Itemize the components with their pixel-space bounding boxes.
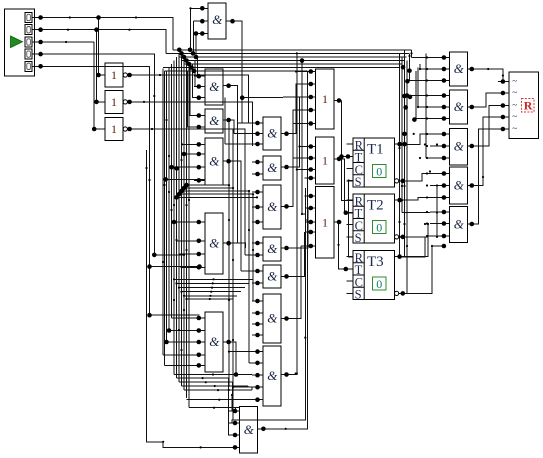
bend — [410, 52, 412, 54]
bend — [178, 329, 180, 331]
top AND gate body — [208, 3, 226, 39]
bend — [145, 167, 147, 169]
junction O2 input — [309, 156, 314, 161]
junction R4 output — [470, 183, 475, 188]
junction R2 input — [442, 93, 447, 98]
T3 Qbar output stub — [399, 292, 407, 294]
branch pin1 to NOT1 — [99, 18, 106, 76]
junction B1 input — [255, 121, 260, 126]
bend — [296, 168, 298, 170]
feed A3 in2 — [184, 153, 194, 155]
T3 Q output stub — [395, 256, 405, 258]
svg-text:1: 1 — [111, 68, 117, 82]
junction B7 input — [255, 385, 260, 390]
bottom long wire to A6 — [163, 442, 234, 448]
bend — [162, 261, 164, 263]
AND A3 input stub — [194, 179, 205, 181]
junction input pin 1 — [38, 15, 43, 20]
bend — [248, 229, 250, 231]
feed vert — [417, 68, 419, 108]
AND B3 input stub — [252, 191, 263, 193]
output pin 2 stub — [498, 92, 509, 94]
junction O1 input — [309, 121, 314, 126]
mid bundle row 4 — [182, 291, 242, 293]
branch pin2 to NOT2 — [97, 30, 106, 102]
junction NOT1 output — [127, 73, 132, 78]
AND B3 input stub — [252, 221, 263, 223]
AND R2 output stub — [468, 106, 477, 108]
top AND input stub — [196, 20, 208, 22]
AND A5 input stub — [194, 317, 205, 319]
junction A4 input — [197, 265, 202, 270]
junction O2 input — [309, 144, 314, 149]
junction T1.Q — [397, 142, 402, 147]
OR O2 output stub — [334, 158, 342, 160]
junction A3 input — [197, 152, 202, 157]
bend — [403, 223, 405, 225]
bend — [295, 372, 297, 374]
junction O2 output — [337, 157, 342, 162]
junction A4 input — [197, 220, 202, 225]
AND gate A1 body — [205, 69, 223, 105]
central bundle vertical 7 — [176, 57, 178, 378]
junction A3 input — [197, 142, 202, 147]
svg-text:~: ~ — [512, 112, 517, 122]
junction A6 input — [233, 409, 238, 414]
input device block — [5, 9, 35, 76]
T2.R input stub — [347, 199, 354, 201]
T3 flip-flop body — [353, 251, 395, 300]
svg-text:&: & — [209, 113, 220, 128]
AND B4 input stub — [252, 254, 263, 256]
AND B4 input stub — [252, 242, 263, 244]
top AND in3 vertical — [195, 34, 197, 58]
AND B7 input stub — [252, 351, 263, 353]
feed B5 in1 — [241, 270, 252, 272]
pin3 run right — [41, 41, 95, 43]
right bundle vertical 5 — [409, 53, 411, 80]
AND A3 input stub — [194, 153, 205, 155]
OR O2 input stub — [306, 177, 316, 179]
AND R1 input lead — [430, 57, 450, 59]
bend — [159, 74, 161, 76]
junction R2 output — [470, 105, 475, 110]
AND R1 output stub — [468, 68, 477, 70]
junction O3 input — [309, 206, 314, 211]
branch along y97 to O1 — [242, 96, 306, 99]
A4 output run — [232, 243, 246, 248]
junction R3 input — [442, 144, 447, 149]
AND A4 input stub — [194, 266, 205, 268]
AND R5 output stub — [468, 223, 477, 225]
T3.S input stub — [347, 292, 354, 294]
svg-text:R: R — [524, 99, 533, 113]
junction A5 input — [197, 363, 202, 368]
output pin 1 stub — [498, 81, 509, 83]
top bundle row 2 — [166, 52, 409, 54]
junction B5 input — [255, 269, 260, 274]
svg-text:&: & — [209, 334, 220, 349]
junction NOT1 input — [96, 73, 101, 78]
T2 Q output stub — [395, 199, 405, 201]
bend — [298, 145, 300, 147]
NOT3 output run — [130, 129, 245, 192]
AND R3 input lead — [430, 145, 450, 147]
bend — [209, 298, 211, 300]
bend — [228, 299, 230, 301]
svg-text:&: & — [267, 268, 278, 283]
bend — [419, 68, 421, 70]
T2.Q to R4 in3 — [404, 198, 430, 201]
top bundle row 7 — [165, 70, 308, 72]
junction R4 input — [442, 195, 447, 200]
junction A5 out joins row — [234, 372, 239, 377]
OR O3 input stub — [306, 231, 316, 233]
junction B7 input — [255, 361, 260, 366]
right bundle vertical 4 — [406, 61, 408, 294]
bend — [228, 351, 230, 353]
NOT gate 3 bubble — [123, 127, 127, 131]
input pin 1 stub — [32, 17, 40, 19]
junction right bundle — [403, 105, 408, 110]
AND A1 input stub — [194, 97, 205, 99]
vertical to T3.R — [349, 181, 354, 257]
junction pin2 branch — [94, 27, 99, 32]
central bundle vertical 12 — [188, 64, 190, 408]
bend — [173, 278, 175, 280]
junction A4 input — [197, 252, 202, 257]
AND B7 input stub — [252, 399, 263, 401]
AND B6 output stub — [281, 318, 290, 320]
svg-text:&: & — [454, 177, 465, 192]
svg-text:&: & — [267, 241, 278, 256]
T1.S lead — [349, 180, 354, 182]
right bundle vertical 3 — [404, 50, 406, 257]
output device block — [509, 72, 539, 139]
corridor bundle row 1 — [187, 184, 230, 186]
top AND input stub — [196, 7, 208, 9]
low bundle row 2 — [177, 377, 229, 379]
junction bundle corner — [189, 65, 194, 70]
OR O2 input stub — [306, 146, 316, 148]
AND B3 output stub — [281, 205, 290, 207]
top AND in2 lead — [194, 20, 197, 22]
bend — [426, 133, 428, 135]
T3 state box — [373, 277, 387, 290]
low bundle row 3 — [179, 381, 233, 383]
T1.Qbar to R4 in1 — [407, 174, 430, 181]
AND R3 input lead — [430, 133, 450, 135]
A6 output long run up — [258, 71, 308, 429]
output pin 4 stub — [498, 116, 509, 118]
bend — [213, 407, 215, 409]
bend on pin1 drop — [502, 74, 504, 76]
AND gate A2 body — [205, 109, 223, 133]
bend — [252, 193, 254, 195]
feed A5 in1 — [172, 317, 200, 319]
bend — [304, 337, 306, 339]
AND gate B4 body — [263, 237, 281, 261]
tap wire y266 — [150, 266, 200, 268]
junction output pin 5 — [501, 127, 506, 132]
T1 cell divider R — [353, 149, 364, 151]
junction B1 input — [255, 142, 260, 147]
junction A4 input — [197, 239, 202, 244]
AND A4 input stub — [194, 253, 205, 255]
corridor long vertical — [301, 61, 303, 215]
junction R2 input — [442, 116, 447, 121]
feed B1 in2 — [234, 133, 252, 135]
bend — [296, 372, 298, 374]
OR O1 input stub — [306, 96, 316, 98]
bend — [403, 185, 405, 187]
AND R1 input lead — [430, 68, 450, 70]
junction A5 input — [197, 316, 202, 321]
input pin square 2 — [25, 25, 32, 35]
T2.Qbar to R5 in3 row — [407, 235, 444, 238]
T2 state box — [373, 221, 387, 234]
tap wire y179 to A3 — [166, 178, 205, 180]
T1 state box — [373, 165, 387, 178]
bend — [406, 245, 408, 247]
tap wire y315 — [150, 314, 200, 316]
AND R1 input lead — [430, 80, 450, 82]
junction T2.T — [344, 210, 349, 215]
input pin 5 stub — [32, 65, 40, 67]
junction A5 input — [197, 353, 202, 358]
junction bundle corner — [191, 51, 196, 56]
T3 Qbar bubble — [395, 291, 399, 295]
AND B1 input stub — [252, 122, 263, 124]
junction right bundle — [401, 185, 403, 187]
AND A5 input stub — [194, 364, 205, 366]
top AND in1 lead — [191, 7, 197, 9]
bend — [419, 157, 421, 159]
bend — [183, 309, 185, 311]
junction — [402, 142, 407, 147]
bend — [426, 68, 428, 70]
AND A4 output stub — [223, 242, 232, 244]
svg-text:1: 1 — [322, 92, 328, 106]
junction — [163, 177, 168, 182]
right bundle vertical 1 — [399, 53, 401, 257]
output R dashed box — [522, 99, 535, 113]
svg-text:&: & — [267, 310, 278, 325]
junction O3 input — [309, 230, 314, 235]
bend — [285, 428, 287, 430]
bend — [426, 196, 428, 198]
bend — [232, 339, 234, 341]
pin glyph 3 — [27, 39, 31, 45]
bend — [69, 16, 71, 18]
feed R2 in1 — [407, 95, 430, 97]
T2 Qbar bubble — [395, 235, 399, 239]
right bundle vertical 2 — [401, 57, 403, 213]
R5 output to pin5 — [476, 129, 498, 224]
AND B6 input stub — [252, 312, 263, 314]
AND gate B3 body — [263, 185, 281, 229]
junction B2 input — [255, 160, 260, 165]
T1.C input stub — [347, 168, 354, 170]
T2.C input stub — [347, 224, 354, 226]
svg-text:T2: T2 — [367, 197, 384, 213]
A1 output run — [232, 86, 238, 123]
bend — [436, 211, 438, 213]
junction — [240, 95, 245, 100]
svg-text:&: & — [209, 235, 220, 250]
svg-text:1: 1 — [322, 154, 328, 168]
junction B6 input — [255, 311, 260, 316]
bend — [170, 209, 172, 211]
feed A5 in4 — [163, 354, 199, 356]
bend — [128, 29, 130, 31]
junction B6 output — [284, 316, 289, 321]
svg-text:~: ~ — [512, 124, 517, 134]
junction O1 input — [309, 69, 314, 74]
pin glyph 4 — [27, 51, 31, 57]
junction — [147, 264, 152, 269]
bend — [252, 249, 254, 251]
bend — [426, 117, 428, 119]
junction output pin 1 — [501, 79, 506, 84]
junction R3 input — [442, 156, 447, 161]
B2 output up — [290, 97, 306, 167]
AND B2 input stub — [252, 161, 263, 163]
corridor bundle row 4 — [179, 193, 253, 195]
svg-text:0: 0 — [376, 277, 382, 291]
B5 output up — [290, 232, 305, 276]
junction O3 input — [309, 194, 314, 199]
junction B7 output — [284, 372, 289, 377]
junction B6 input — [255, 299, 260, 304]
junction A2 output — [226, 118, 231, 123]
junction B7 input — [255, 397, 260, 402]
bend — [408, 55, 410, 57]
feed O2 in4 — [305, 177, 307, 179]
feed vert long — [425, 53, 427, 158]
junction T3.T — [344, 267, 349, 272]
junction R3 output — [470, 144, 475, 149]
feed O2 in2 — [293, 157, 306, 159]
link down to A6 feed2 — [232, 382, 234, 395]
OR O3 input stub — [306, 221, 316, 223]
feeder vertical to A input 5 — [188, 71, 206, 127]
feed R5 in1 — [402, 212, 430, 214]
pin glyph 2 — [27, 27, 31, 33]
central bundle vertical 4 — [168, 68, 170, 331]
T3.C input stub — [347, 280, 354, 282]
T1.S input stub — [347, 180, 354, 182]
junction A1 input — [197, 95, 202, 100]
OR O1 output stub — [334, 100, 342, 102]
input pin square 1 — [25, 13, 32, 23]
svg-text:S: S — [355, 175, 362, 189]
junction A1 input — [197, 74, 202, 79]
AND R4 input lead — [430, 173, 450, 175]
bend — [162, 441, 164, 443]
bend — [148, 179, 150, 181]
junction R2 input — [442, 105, 447, 110]
A5 output run — [232, 342, 236, 375]
T1 flip-flop body — [353, 138, 395, 187]
bend — [436, 184, 438, 186]
output pin 3 stub — [498, 105, 509, 107]
junction top AND input — [200, 6, 205, 11]
T1.T input stub — [347, 155, 354, 157]
junction A3 input — [197, 165, 202, 170]
green run triangle — [11, 36, 23, 48]
low bundle row 1 — [174, 374, 252, 376]
bend — [175, 282, 177, 284]
svg-text:1: 1 — [111, 95, 117, 109]
junction bundle corner — [194, 55, 199, 60]
bend — [347, 179, 349, 181]
mid bundle row 6 — [187, 298, 234, 300]
bend — [67, 29, 69, 31]
junction B5 output — [284, 274, 289, 279]
feed R1 in3 — [410, 80, 431, 82]
junction A4 output — [226, 241, 231, 246]
junction NOT2 output — [127, 100, 132, 105]
A3 output run — [232, 161, 241, 206]
bend — [426, 172, 428, 174]
junction right bundle — [401, 65, 406, 70]
junction B5 input — [255, 281, 260, 286]
AND R5 input lead — [430, 235, 450, 237]
bend — [482, 176, 484, 178]
pin glyph 5 — [27, 63, 31, 69]
AND gate R4 body — [450, 167, 468, 204]
AND B3 input stub — [252, 206, 263, 208]
AND A3 input stub — [194, 143, 205, 145]
T3.Q up to R5 in2 — [404, 224, 428, 257]
bend — [337, 244, 339, 246]
junction O1 input — [309, 82, 314, 87]
pin glyph 1 — [27, 14, 31, 20]
junction — [339, 154, 344, 159]
junction B4 output — [284, 246, 289, 251]
junction T2.Q — [397, 198, 402, 203]
OR gate O1 body — [316, 69, 335, 129]
junction B3 input — [255, 205, 260, 210]
T3 cell divider T — [353, 274, 364, 276]
junction — [194, 31, 199, 36]
AND A5 input stub — [194, 354, 205, 356]
bend — [183, 295, 185, 297]
AND R5 input lead — [430, 223, 450, 225]
junction O3 input — [309, 244, 314, 249]
jog to B7 in3 — [251, 374, 253, 377]
jog row7 to A6 in1 — [234, 408, 236, 411]
bend — [248, 190, 250, 192]
bend — [426, 145, 428, 147]
junction O1 input — [309, 108, 314, 113]
AND R5 input lead — [430, 211, 450, 213]
AND R4 output stub — [468, 185, 477, 187]
T1 Q output stub — [395, 143, 405, 145]
corridor bundle row 5 — [177, 196, 258, 198]
svg-text:&: & — [267, 368, 278, 383]
bend — [214, 385, 216, 387]
bend — [296, 52, 298, 54]
bend — [401, 199, 403, 201]
corridor bundle row 3 — [182, 190, 250, 192]
junction — [169, 165, 174, 170]
junction — [197, 264, 202, 269]
bend — [232, 187, 234, 189]
junction R5 input — [442, 221, 447, 226]
junction O2 input — [309, 176, 314, 181]
